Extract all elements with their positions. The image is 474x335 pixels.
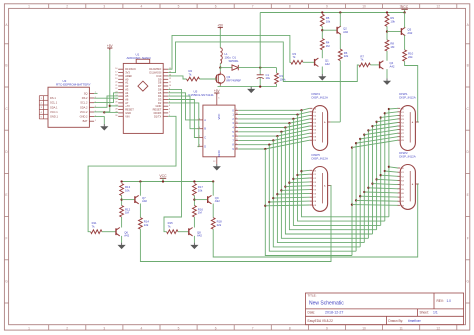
- resistor R7 7k: [359, 63, 370, 67]
- title block: [306, 293, 464, 325]
- transistor Q3 IRF740PBF mosfet: [216, 74, 225, 83]
- node bus tap DISP5 line 5: [284, 185, 286, 187]
- power +5V at U5: [214, 92, 219, 94]
- wire R9 to base node: [386, 26, 388, 40]
- node Q9 emitter rail: [212, 180, 214, 182]
- U5 input pins: [198, 119, 203, 121]
- wire bus to DISP1 K9: [352, 140, 398, 147]
- wire ground bar: [218, 86, 277, 88]
- wire VCC riser to top rail: [259, 13, 261, 68]
- svg-text:+7V: +7V: [125, 104, 130, 108]
- node bus tap DISP1 line 1: [355, 142, 357, 144]
- svg-text:10: 10: [362, 326, 366, 330]
- transistor Q5 A92 pnp: [401, 27, 405, 35]
- svg-text:A6: A6: [125, 98, 129, 102]
- wire bus line 3 down and right: [277, 136, 364, 243]
- svg-text:2: 2: [66, 326, 68, 330]
- svg-text:3: 3: [103, 5, 105, 9]
- node R17 top rail: [193, 180, 195, 182]
- DISP4 inner electrode line: [321, 112, 323, 142]
- resistor R12 1M: [120, 206, 124, 218]
- DISP4 cathode pins K0-K9: [310, 107, 313, 109]
- wire bus to DISP5 K5: [281, 189, 309, 192]
- inductor L1: [220, 48, 222, 64]
- svg-text:100k: 100k: [280, 77, 287, 81]
- component U3 rtc module body: [48, 87, 89, 127]
- svg-text:1: 1: [28, 5, 30, 9]
- node bus tap DISP2 line 0: [351, 203, 353, 205]
- svg-text:SR506L: SR506L: [229, 59, 240, 63]
- wire bus line 0 down and right: [265, 149, 352, 256]
- node bus tap DISP1 line 9: [388, 108, 390, 110]
- node L1/diode/drain junction: [219, 66, 221, 68]
- svg-text:11: 11: [236, 139, 238, 141]
- svg-text:Sheet:: Sheet:: [420, 311, 429, 315]
- svg-text:14: 14: [236, 130, 238, 132]
- svg-text:F: F: [6, 236, 8, 240]
- wire Q4 emitter: [386, 69, 388, 78]
- power VCC top: [401, 8, 407, 10]
- node bus tap DISP2 line 3: [363, 191, 365, 193]
- DISP1 anode pin: [415, 121, 418, 123]
- svg-text:A42: A42: [325, 62, 330, 66]
- svg-text:4: 4: [141, 5, 143, 9]
- nixie tube DISP1 body: [400, 106, 415, 151]
- node bus tap DISP5 line 2: [272, 197, 274, 199]
- wire R14 to DISP5 anode: [140, 186, 331, 262]
- node bus tap DISP4 line 4: [284, 126, 286, 128]
- wire bus right line 5 up: [372, 126, 374, 234]
- DISP2 anode pin: [415, 183, 418, 185]
- ground at Q1: [319, 74, 325, 80]
- svg-text:BAT: BAT: [83, 119, 88, 123]
- DISP4 anode pin: [328, 121, 331, 123]
- wire R4 to Q1 collector: [321, 50, 323, 59]
- svg-text:3: 3: [236, 126, 237, 128]
- svg-text:10u: 10u: [266, 76, 271, 80]
- node bus tap DISP5 line 6: [288, 182, 290, 184]
- wire VCC stem bottom: [162, 178, 164, 181]
- resistor R5 10k: [320, 14, 324, 26]
- wire bus right line 4 up: [367, 130, 369, 238]
- wire bus to DISP2 K2: [381, 175, 398, 176]
- svg-text:8: 8: [289, 5, 291, 9]
- svg-text:A42: A42: [197, 234, 202, 238]
- svg-text:GND.1: GND.1: [50, 115, 58, 119]
- U5 output pins 0-9: [235, 109, 238, 111]
- wire Q2 base: [322, 29, 337, 31]
- wire R5 to base node: [321, 26, 323, 38]
- node bus tap DISP1 line 4: [367, 129, 369, 131]
- svg-text:A92: A92: [407, 31, 412, 35]
- resistor R10 22k: [403, 50, 407, 61]
- svg-text:8: 8: [289, 326, 291, 330]
- nixie tube DISP2 body: [400, 165, 415, 210]
- svg-text:Date:: Date:: [308, 311, 316, 315]
- svg-text:RTC-EEPROM-BATTERY: RTC-EEPROM-BATTERY: [56, 83, 91, 87]
- wire bus to DISP2 K0: [389, 167, 398, 168]
- svg-text:DS.2: DS.2: [82, 96, 88, 100]
- wire R18 to DISP2 anode: [213, 184, 419, 257]
- svg-text:GND: GND: [217, 150, 221, 156]
- node VCC bottom rail: [162, 180, 164, 182]
- svg-text:D7: D7: [158, 84, 162, 88]
- wire bus to DISP5 K4: [285, 185, 309, 188]
- svg-text:6: 6: [215, 5, 217, 9]
- svg-text:TITLE:: TITLE:: [308, 294, 317, 298]
- svg-text:1.0: 1.0: [447, 299, 452, 303]
- wire SCL.2 to arduino A4: [94, 93, 118, 103]
- wire DS.2 to arduino A6: [94, 97, 118, 99]
- wire Q7 base: [122, 199, 135, 201]
- DISP5 cathode pins K0-K9: [310, 169, 313, 171]
- svg-text:A0: A0: [125, 77, 129, 81]
- wire R17 to base node: [193, 196, 195, 206]
- U3 pins right: [89, 92, 94, 94]
- svg-text:B: B: [5, 64, 7, 68]
- svg-text:6: 6: [215, 326, 217, 330]
- wire bus line 7 down and right: [293, 119, 380, 225]
- svg-text:DS.1: DS.1: [50, 96, 56, 100]
- svg-text:SDA.1: SDA.1: [50, 105, 58, 109]
- transistor Q2 A92 pnp: [337, 26, 341, 34]
- svg-text:GND: GND: [156, 104, 162, 108]
- svg-text:12: 12: [436, 5, 440, 9]
- node bus tap DISP4 line 5: [280, 131, 282, 133]
- wire R10 to DISP1 anode: [405, 61, 419, 122]
- wire bus to DISP5 K2: [293, 177, 309, 180]
- wire bus line 1 down and right: [269, 145, 356, 252]
- wire Q8 emitter: [193, 236, 195, 243]
- svg-text:10k: 10k: [390, 19, 395, 23]
- node C1 bottom junction: [259, 85, 261, 87]
- wire +5V to arduino +7V pin: [110, 105, 118, 107]
- wire R13 to base node: [121, 196, 123, 206]
- transistor Q9 A92 pnp: [208, 195, 212, 203]
- svg-text:22k: 22k: [217, 223, 222, 227]
- wire node to D1 anode: [220, 67, 232, 69]
- wire D1/TX to R11 input: [88, 116, 176, 231]
- wire D5 to U5 input 0: [168, 93, 197, 120]
- wire U5 out 9 to DISP4 K9: [238, 140, 309, 149]
- resistor R11 7k: [91, 230, 102, 234]
- wire bus line 8 down and right: [298, 115, 385, 222]
- wire bus to DISP2 K3: [377, 179, 398, 180]
- node R13 top rail: [120, 180, 122, 182]
- svg-text:+5V: +5V: [107, 44, 114, 48]
- U1 usb notch: [136, 59, 150, 63]
- svg-text:22k: 22k: [344, 54, 349, 58]
- svg-text:5: 5: [178, 326, 180, 330]
- wire VCC top rail: [260, 12, 404, 14]
- ground at RTC: [101, 124, 107, 130]
- node bus tap DISP2 line 6: [375, 178, 377, 180]
- wire bus right line 8 up: [384, 113, 386, 221]
- node Q7 emitter rail: [139, 180, 141, 182]
- transistor Q1 A42 npn: [315, 58, 319, 66]
- wire +5V vertical to RTC VCC.2: [109, 50, 111, 112]
- wire bus to DISP5 K6: [277, 192, 309, 195]
- svg-text:D0/RX: D0/RX: [154, 111, 162, 115]
- wire VCC bottom rail: [122, 181, 214, 183]
- svg-text:15: 15: [236, 122, 238, 124]
- svg-text:D10: D10: [157, 74, 162, 78]
- svg-text:4: 4: [141, 326, 143, 330]
- resistor R8 1M: [385, 40, 389, 51]
- wire bus to DISP2 K7: [360, 195, 398, 198]
- wire Q5 emitter: [404, 13, 406, 28]
- node Q2 base junction: [321, 29, 323, 31]
- wire bus to DISP1 K6: [364, 130, 398, 135]
- wire R2 to gate: [200, 78, 217, 80]
- transistor Q7 A92 pnp: [135, 195, 139, 203]
- wire VCC.2 to +5V riser: [94, 111, 110, 113]
- wire bus to DISP5 K3: [289, 181, 309, 184]
- DISP5 anode pin: [328, 185, 331, 187]
- svg-text:GND: GND: [125, 111, 131, 115]
- node bus tap DISP2 line 4: [367, 187, 369, 189]
- node bus tap DISP4 line 9: [264, 148, 266, 150]
- border tick marks bottom: [48, 325, 50, 330]
- wire D2 to U5 input 3: [168, 103, 199, 147]
- wire U5 out 6 to DISP4 K6: [238, 130, 309, 137]
- node Q9 base junction: [193, 198, 195, 200]
- svg-text:F: F: [467, 236, 469, 240]
- wire Q7 collector to R14: [139, 204, 141, 218]
- svg-text:A92: A92: [343, 30, 348, 34]
- wire arduino GND to gnd node: [104, 111, 118, 113]
- wire into DISP4 anode pin: [330, 121, 340, 123]
- wire U5 out 1 to DISP4 K1: [238, 112, 309, 115]
- wire D4 to U5 input 1: [168, 96, 197, 129]
- svg-text:1M: 1M: [125, 211, 130, 215]
- wire D11 to R7 input: [168, 42, 359, 82]
- node bus tap DISP4 line 3: [288, 122, 290, 124]
- node bus tap DISP1 line 5: [371, 125, 373, 127]
- wire bus to DISP2 K6: [364, 191, 398, 194]
- node bus tap DISP5 line 7: [292, 178, 294, 180]
- node bus tap DISP2 line 8: [384, 170, 386, 172]
- capacitor C1: [259, 68, 261, 75]
- svg-text:D3: D3: [158, 98, 162, 102]
- svg-text:10: 10: [236, 148, 238, 150]
- wire U5 out 2 to DISP4 K2: [238, 115, 309, 119]
- svg-text:5: 5: [178, 5, 180, 9]
- svg-text:D1/TX: D1/TX: [154, 114, 162, 118]
- wire R12 to Q6 collector: [121, 217, 123, 228]
- wire Q5 base: [387, 31, 401, 33]
- power +5V near arduino: [107, 47, 112, 49]
- node R5 top rail: [321, 11, 323, 13]
- wire Q9 collector to R18: [212, 204, 214, 218]
- node bus tap DISP1 line 6: [375, 121, 377, 123]
- wire bus right line 2 up: [359, 139, 361, 247]
- wire bus to DISP1 K3: [377, 119, 398, 122]
- node bus tap DISP2 line 9: [388, 166, 390, 168]
- svg-text:2018-12-27: 2018-12-27: [325, 311, 343, 315]
- svg-text:10k: 10k: [198, 189, 203, 193]
- wire bus line 6 down and right: [289, 123, 376, 230]
- svg-text:12: 12: [436, 326, 440, 330]
- node bus tap DISP4 line 1: [296, 113, 298, 115]
- nixie tube DISP4 body: [312, 106, 327, 151]
- node bus tap DISP4 line 2: [292, 118, 294, 120]
- U1 pins right: [163, 68, 168, 70]
- wire bus right line 9 up: [388, 109, 390, 217]
- svg-text:1/1: 1/1: [433, 311, 438, 315]
- node R9 top rail: [386, 11, 388, 13]
- wire U5 out 5 to DISP4 K5: [238, 126, 309, 132]
- node bus tap DISP1 line 8: [384, 112, 386, 114]
- ground at Q6: [119, 243, 125, 249]
- node bus tap DISP1 line 0: [351, 146, 353, 148]
- wire bus to DISP1 K0: [389, 107, 398, 110]
- svg-text:2: 2: [236, 118, 237, 120]
- wire bus to DISP2 K8: [356, 199, 398, 202]
- resistor R9 10k: [385, 14, 389, 26]
- svg-text:10k: 10k: [326, 19, 331, 23]
- wire R16 to Q8 collector: [193, 217, 195, 228]
- U5 pin 12 GND stub: [216, 157, 218, 164]
- ground at boost converter: [248, 87, 254, 93]
- wire U5 out 7 to DISP4 K7: [238, 133, 309, 140]
- wire bus to DISP5 K8: [269, 200, 309, 203]
- svg-text:D: D: [204, 144, 206, 148]
- wire L1 to drain node: [219, 64, 221, 68]
- wire R15 to Q8 base: [178, 231, 189, 233]
- svg-text:1M: 1M: [198, 211, 203, 215]
- svg-text:timefixer: timefixer: [408, 319, 422, 323]
- resistor R2: [187, 77, 200, 81]
- DISP2 cathode pins K0-K9: [397, 167, 400, 169]
- wire bus to DISP1 K7: [360, 133, 398, 139]
- wire Q9 base: [194, 199, 207, 201]
- svg-text:C: C: [204, 136, 206, 140]
- wire R1 top: [276, 68, 278, 73]
- U1 diamond logo: [138, 81, 148, 91]
- ground at U5 pin12: [214, 164, 220, 170]
- wire bus right line 6 up: [376, 122, 378, 230]
- svg-text:VCC.1: VCC.1: [50, 110, 58, 114]
- svg-text:SCL.2: SCL.2: [80, 101, 88, 105]
- node Q7 base junction: [120, 198, 122, 200]
- svg-text:22k: 22k: [144, 223, 149, 227]
- wire bus right line 0 up: [351, 148, 353, 256]
- node bus tap DISP4 line 8: [268, 144, 270, 146]
- DISP1 cathode pins K0-K9: [397, 107, 400, 109]
- svg-text:SCL.1: SCL.1: [50, 101, 58, 105]
- power +5V at L1: [218, 26, 223, 28]
- svg-text:A42: A42: [124, 234, 129, 238]
- wire R7 to Q4 base: [370, 64, 379, 66]
- svg-text:E: E: [5, 193, 7, 197]
- svg-text:EasyEDA V5.8.22: EasyEDA V5.8.22: [308, 319, 334, 323]
- svg-text:VIN: VIN: [125, 114, 129, 118]
- node C1 top junction: [259, 66, 261, 68]
- svg-text:1: 1: [28, 326, 30, 330]
- wire U5 out 0 to DISP4 K0: [238, 108, 309, 110]
- node bus tap DISP5 line 1: [268, 201, 270, 203]
- svg-text:A3: A3: [125, 87, 129, 91]
- node bus tap DISP1 line 3: [363, 134, 365, 136]
- wire Q7 emitter: [139, 182, 141, 196]
- border tick marks right: [466, 43, 470, 45]
- border tick marks top: [48, 4, 50, 9]
- svg-text:SDA.2: SDA.2: [80, 105, 88, 109]
- ground at Q8: [192, 243, 198, 249]
- U5 pin 5 VCC stub: [216, 95, 218, 106]
- svg-text:REV:: REV:: [437, 299, 444, 303]
- svg-text:2: 2: [66, 5, 68, 9]
- wire Q2 collector to R6: [339, 34, 341, 49]
- wire D10 to R2: [168, 76, 186, 79]
- svg-text:A: A: [204, 118, 206, 122]
- resistor R1: [275, 73, 279, 84]
- wire bus to DISP5 K0: [302, 169, 310, 172]
- ground at Q4: [384, 78, 390, 84]
- node +5V to arduino +7V: [109, 105, 111, 107]
- svg-text:9: 9: [326, 5, 328, 9]
- wire U5 out 8 to DISP4 K8: [238, 137, 309, 145]
- svg-text:A2: A2: [125, 84, 129, 88]
- wire bus line 9 down and right: [302, 110, 389, 217]
- nixie tube DISP5 body: [312, 167, 327, 212]
- node bus tap DISP2 line 1: [355, 199, 357, 201]
- svg-text:B: B: [204, 127, 206, 131]
- svg-text:VCC: VCC: [159, 174, 167, 178]
- svg-text:7: 7: [236, 143, 237, 145]
- wire +5V to L1: [219, 29, 221, 47]
- svg-text:22k: 22k: [408, 55, 413, 59]
- svg-text:9: 9: [326, 326, 328, 330]
- resistor R16 1M: [193, 206, 197, 218]
- wire Q2 emitter: [339, 13, 341, 27]
- svg-text:D9: D9: [158, 77, 162, 81]
- wire drain: [219, 68, 221, 72]
- wire bus to DISP1 K5: [368, 126, 397, 130]
- svg-text:Drawn By:: Drawn By:: [388, 319, 403, 323]
- transistor Q4 A42 npn: [380, 61, 384, 69]
- svg-text:16: 16: [236, 113, 238, 115]
- svg-text:VCC: VCC: [217, 114, 221, 120]
- svg-text:A92: A92: [142, 199, 147, 203]
- svg-text:GND.2: GND.2: [80, 115, 88, 119]
- svg-text:A5: A5: [125, 94, 129, 98]
- wire R8 to Q4 collector: [386, 51, 388, 61]
- svg-text:ARDUINO_NANO: ARDUINO_NANO: [127, 56, 152, 60]
- svg-text:+5V: +5V: [217, 23, 224, 27]
- connector J1 header grid: [39, 96, 48, 119]
- DISP2 inner electrode line: [409, 171, 411, 201]
- wire D12 to R3 input: [168, 35, 291, 69]
- node bus tap DISP1 line 7: [380, 116, 382, 118]
- resistor R17 10k: [193, 184, 197, 196]
- wire Q1 emitter: [321, 67, 323, 75]
- node bus tap DISP2 line 5: [371, 182, 373, 184]
- node bus tap DISP5 line 3: [276, 193, 278, 195]
- svg-text:AREF: AREF: [125, 74, 132, 78]
- wire bus to DISP1 K1: [385, 112, 398, 114]
- node Q5 base junction: [386, 30, 388, 32]
- component U1 arduino nano body: [123, 63, 163, 133]
- wire bus to DISP5 K7: [273, 196, 309, 199]
- svg-text:VCC: VCC: [401, 5, 409, 9]
- node Q5 emitter rail: [403, 11, 405, 13]
- U1 pins left: [118, 68, 123, 70]
- svg-text:D6: D6: [158, 87, 162, 91]
- node bus tap DISP5 line 0: [264, 205, 266, 207]
- node bus tap DISP2 line 7: [380, 174, 382, 176]
